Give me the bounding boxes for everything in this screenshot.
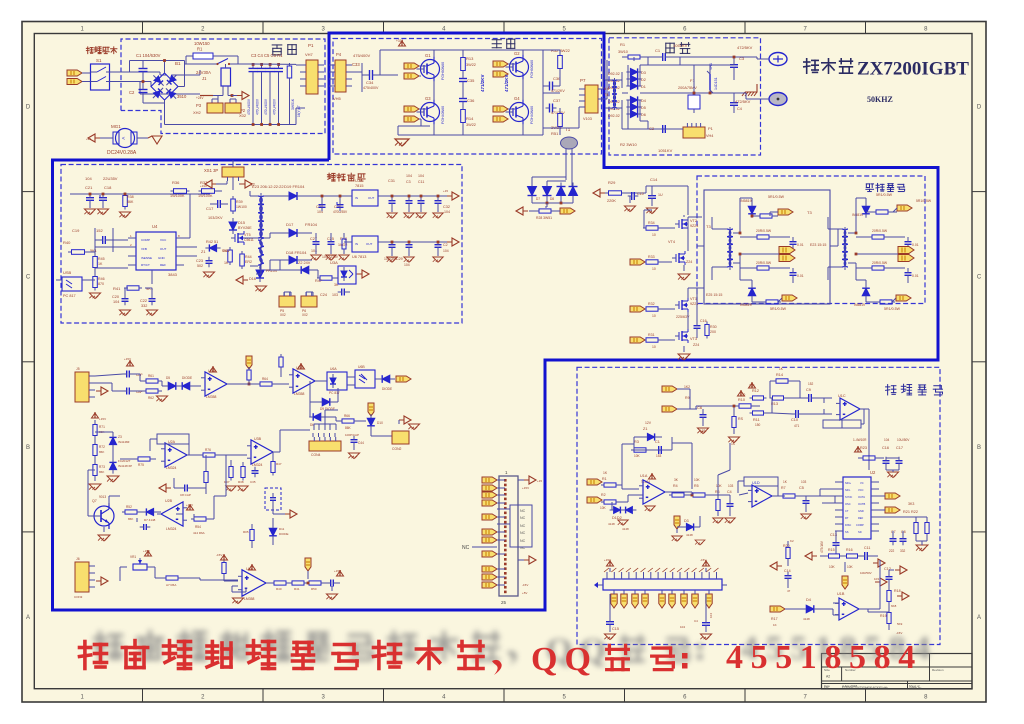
gnd left col [89,471,119,490]
svg-text:G3: G3 [425,96,431,101]
terminal plus [763,53,787,66]
svg-text:C17: C17 [896,446,903,450]
wire switch to C1 [110,61,152,87]
resistor R40b [266,581,289,591]
diode pair row1 [156,376,196,402]
label 电源开关 [86,47,117,54]
connector P7 [579,78,598,121]
gnd 上板 [395,139,409,146]
resistor R19 [868,609,903,635]
wire CON4 up [314,410,338,430]
svg-text:1K: 1K [224,261,229,265]
svg-text:LM358: LM358 [244,597,254,601]
wire U4 area [88,194,197,296]
svg-text:C1 104/630V: C1 104/630V [136,53,161,58]
svg-text:RT/CT: RT/CT [141,263,150,267]
bridge rectifier B1 [151,61,187,125]
svg-text:R15: R15 [828,548,835,552]
svg-text:RS: RS [738,417,744,421]
cap C14x [646,177,663,214]
svg-text:Z2 24V: Z2 24V [298,261,311,265]
svg-text:VT2: VT2 [690,219,697,223]
cap C row3 [159,478,191,497]
cap 0.01 b [790,268,804,283]
svg-text:D17: D17 [286,222,294,227]
terminal minus [763,93,787,106]
wire U1C out [868,409,870,470]
svg-text:Q7: Q7 [92,499,97,503]
svg-text:3W22: 3W22 [466,63,476,67]
pwr arrows ctrl mid [805,552,887,586]
wire 中板 top [640,56,769,88]
label group R23 C16 C17 [853,438,910,450]
transformer T1 core [561,127,578,180]
diode D22 IN5819 [852,198,870,233]
svg-text:86K: 86K [345,426,352,430]
resistor R5V [216,553,228,581]
svg-text:3K3: 3K3 [908,502,914,506]
svg-text:+: + [842,602,846,608]
svg-text:870: 870 [98,282,104,286]
svg-text:10K: 10K [600,506,607,510]
wire relay to P3 P2 [212,86,238,103]
svg-text:CT: CT [845,509,849,513]
svg-text:R38: R38 [127,195,134,199]
svg-text:LM358: LM358 [294,392,304,396]
svg-text:+: + [254,445,258,451]
svg-text:R72: R72 [99,445,105,449]
svg-text:472/5KV: 472/5KV [735,99,751,104]
svg-text:C21: C21 [85,185,93,190]
svg-text:XH2: XH2 [193,110,202,115]
gnd row2 [408,424,419,430]
svg-text:A: A [977,615,981,621]
cap C5c [799,480,835,519]
svg-text:5R1/0.5W: 5R1/0.5W [876,193,893,197]
cap C26 470U35V [333,196,348,214]
title ZX7200IGBT [857,59,969,80]
diode below U5B [310,381,338,411]
resistor R2B [193,448,222,457]
svg-text:R37: R37 [224,480,230,484]
IGBT G4 [493,93,534,135]
svg-text:D1D2: D1D2 [612,516,622,520]
svg-text:G1: G1 [425,53,431,58]
svg-text:D1: D1 [641,85,646,89]
resistor R2A [120,457,156,467]
cap C24 103 [320,289,350,298]
diode D19 FR104 [270,184,316,200]
svg-text:D92-02: D92-02 [608,72,620,76]
svg-text:103: 103 [332,293,338,297]
svg-text:471/2KV: 471/2KV [504,74,509,92]
svg-text:104: 104 [113,300,119,304]
resistor bank R vertical [287,63,295,125]
svg-text:104: 104 [444,210,450,214]
svg-text:C4: C4 [737,107,742,111]
resistor R43 [222,247,232,265]
svg-text:20R/0.5W: 20R/0.5W [756,229,772,233]
svg-text:ZX7200IGBT: ZX7200IGBT [857,59,969,80]
opamp U1D [738,477,785,507]
labels C16 225/63V [676,315,707,323]
board outline thick blue polygon [53,33,939,610]
svg-text:332: 332 [141,304,147,308]
resistor R33 [630,255,672,271]
svg-text:R14: R14 [466,116,474,121]
svg-text:IN: IN [355,242,358,246]
svg-text:Z1: Z1 [643,427,647,431]
svg-text:C37: C37 [553,98,561,103]
wire ctrl feedback [692,443,835,503]
dashed box 底板 (bottom board) [121,39,325,134]
cap 0.01 c [905,237,919,252]
svg-text:R36: R36 [172,180,180,185]
resistor R4A [122,505,140,521]
svg-text:VC: VC [860,481,864,485]
svg-text:-15V: -15V [522,583,528,587]
svg-text:C20: C20 [112,295,119,299]
svg-text:Z24: Z24 [686,260,692,264]
svg-text:+: + [176,507,180,513]
svg-text:104: 104 [443,249,449,253]
label 控制模块 [886,384,943,395]
svg-text:C8 CAP: C8 CAP [180,493,191,497]
resistor R34 [643,221,675,237]
svg-text:C11: C11 [418,180,424,184]
svg-text:OUT: OUT [366,242,373,246]
svg-text:DC24V0.28A: DC24V0.28A [107,150,137,156]
svg-text:1051KV: 1051KV [673,43,688,48]
wire top bus cap bank [250,64,305,65]
svg-text:10: 10 [652,314,656,318]
svg-text:R32: R32 [648,302,655,306]
opamp U1C [823,394,869,428]
svg-text:-: - [254,455,256,461]
cap C17 [206,200,228,211]
regulator U7 7815 [344,178,386,206]
label 辅助电源 [327,173,365,181]
svg-text:D11: D11 [279,527,285,531]
svg-text:C31: C31 [388,179,395,183]
diode D23 IN5819 [854,268,880,307]
resistor R4B [191,514,214,535]
svg-text:104: 104 [404,263,410,267]
svg-text:14D151: 14D151 [714,77,718,90]
transformer T4 [604,70,622,116]
wire VT2 VT4 [644,210,688,251]
cap C32 [435,196,451,214]
resistor RL3 [93,462,105,479]
svg-text:V103: V103 [583,117,592,121]
label 底板 [272,45,296,55]
svg-text:C32: C32 [443,205,450,209]
wire T4 输入 [604,60,628,129]
IGBT G1 [404,50,445,95]
svg-text:U2A: U2A [168,440,176,444]
title 佳士宝 [804,59,853,73]
svg-text:+5V: +5V [522,591,527,595]
label 上板 [492,39,515,48]
wire row2 to con [362,421,399,436]
svg-text:R20: R20 [783,544,790,548]
wire drv left junctions [739,215,754,256]
svg-text:U6 7813: U6 7813 [352,255,366,259]
pwr end row5 [326,569,343,600]
svg-text:+15: +15 [443,189,448,193]
DB25 NC labels [462,509,526,551]
pot VR1 [120,549,155,581]
resistor 20R a [740,229,790,239]
svg-text:D3: D3 [684,519,689,523]
power arrow out relay [237,92,249,100]
svg-text:3W10: 3W10 [618,50,628,54]
svg-text:NC: NC [520,539,526,543]
svg-text:9013: 9013 [99,495,106,499]
opamp U1B [833,592,868,620]
svg-text:C36: C36 [467,98,475,103]
cap C4m [730,96,742,113]
label 472/5KV top [737,45,753,50]
motor MG1 [86,124,148,148]
resistor R row2 [330,414,362,430]
diode D row2 [309,402,330,427]
header pwr arrows [604,558,710,572]
resistor R50b [304,581,328,591]
control header strip [594,568,727,590]
mosfet VT2 [675,217,698,231]
labels C25 R48 [322,237,347,259]
svg-text:X02: X02 [302,313,308,317]
svg-text:R45: R45 [98,257,105,261]
svg-text:G2: G2 [514,51,520,56]
svg-text:T4: T4 [604,93,608,97]
resistor R46 [89,274,104,299]
label E23 spec [252,184,284,189]
opamp U4A [190,564,270,604]
svg-text:SD: SD [858,530,862,534]
svg-text:475/400V: 475/400V [353,53,370,58]
svg-text:OUT: OUT [368,196,375,200]
cap C33 [352,62,362,92]
resistor R29 220K [593,180,646,203]
svg-text:1K2: 1K2 [684,385,690,389]
svg-text:C2: C2 [443,243,448,247]
title block text [824,668,944,690]
svg-text:104: 104 [680,625,685,629]
svg-text:R34: R34 [648,221,655,225]
svg-text:IN5819: IN5819 [852,213,863,217]
resistor R5R1 bot [763,298,787,311]
cap C10c [772,410,824,428]
wire left col [92,412,114,481]
svg-text:R9: R9 [685,396,690,400]
svg-text:R61: R61 [148,374,154,378]
label 475/16V [820,540,824,553]
svg-text:R44: R44 [245,255,252,259]
connector P4 VH5 [329,52,352,101]
svg-text:C18: C18 [104,185,112,190]
wire 中板 bottom [628,121,680,129]
svg-text:R76: R76 [205,448,211,452]
svg-text:470U/400V: 470U/400V [264,98,268,115]
svg-text:-: - [842,612,844,618]
cap C1m [655,43,688,61]
svg-text:IN4148Z: IN4148Z [118,440,130,444]
wire Z1 box [622,437,692,489]
transformer T3 left [706,217,740,297]
cap C11c [858,546,878,575]
cap C22 [140,295,158,316]
cap C2m [649,125,672,133]
svg-text:+310: +310 [200,184,207,188]
label 475/400V [353,53,370,58]
svg-text:P1: P1 [708,126,714,131]
diode D4c [770,598,833,627]
svg-text:R47: R47 [276,462,282,466]
resistor R22 [879,517,929,551]
cap C15c [604,594,619,640]
svg-text:QQ: QQ [531,641,598,678]
svg-text:Z24: Z24 [693,343,699,347]
label 5R1 top right [916,199,932,203]
cap row2 [345,433,364,459]
svg-text:D5: D5 [166,376,170,380]
svg-text:NC: NC [520,509,526,513]
resistor R39 [208,196,247,220]
svg-text:REF: REF [858,516,864,520]
svg-text:3W22: 3W22 [466,123,476,127]
svg-text:R17: R17 [771,617,778,621]
svg-text:G4: G4 [514,96,520,101]
pin drv top [770,209,793,216]
svg-text:OUTA: OUTA [858,495,865,499]
svg-text:R64: R64 [262,377,268,381]
svg-text:IN: IN [355,196,358,200]
connector CON2 [392,431,409,451]
svg-text:VR1: VR1 [130,555,136,559]
svg-text:+24V: +24V [196,96,204,100]
svg-text:R05: R05 [243,530,249,534]
svg-text:10: 10 [652,345,656,349]
svg-text:+15: +15 [537,479,542,483]
svg-text:BYV26E: BYV26E [238,226,252,230]
svg-text:R14: R14 [776,373,783,377]
svg-text:R21 R22: R21 R22 [903,510,918,514]
svg-text:R40: R40 [276,587,282,591]
svg-text:C14: C14 [784,569,791,573]
diode D row1 end [378,375,395,391]
resistor R23 [855,446,885,460]
power arrow +24V [196,96,213,101]
DB25 pins left [482,477,505,588]
svg-text:D5: D5 [641,106,646,110]
svg-text:R4: R4 [673,484,678,488]
svg-text:16(Y)&T: 16(Y)&T [297,105,301,117]
resistor R3c [631,437,662,458]
svg-text:C4: C4 [694,619,698,623]
svg-text:3843: 3843 [168,272,178,277]
wire driver link [697,229,842,246]
svg-text:24V30A: 24V30A [196,70,211,75]
resistor R5A [155,567,190,587]
diode D17 FR104 [270,222,318,238]
bus 上板 bottom [398,126,543,135]
svg-text:472/5KV: 472/5KV [737,45,753,50]
cap C34 [362,70,380,90]
svg-text:R73: R73 [99,465,105,469]
svg-text:IN4148 6P: IN4148 6P [118,464,132,468]
transistor Q7 [88,470,120,541]
resistor R15 [820,548,843,569]
svg-text:100P/CAP: 100P/CAP [345,433,359,437]
opamp U5A [196,366,238,399]
svg-text:86K: 86K [99,470,104,474]
diode D20 IN5819 [740,198,756,218]
labels R6 C4 [715,484,734,494]
pin drv right mid [855,232,914,262]
resistor R18 [887,588,909,613]
cap C50 [307,580,340,587]
svg-text:R2 3W10: R2 3W10 [620,142,637,147]
svg-text:1-4W10R: 1-4W10R [853,438,867,442]
cap C30 [384,241,403,261]
svg-text:R1: R1 [602,477,607,481]
svg-text:1U: 1U [658,193,663,197]
svg-text:File: File [824,686,829,690]
zener Z1aux 20V [201,240,230,254]
svg-text:R10: R10 [738,398,745,402]
svg-text:R41: R41 [294,587,300,591]
svg-text:R66: R66 [344,414,350,418]
red advert text 河南焊机销售与技术群 QQ群号 45518584 [80,639,923,678]
svg-text:1051KV: 1051KV [658,148,673,153]
resistor R40 [63,240,97,254]
svg-text:F:\2000\d21\2X7200\4000-6\2X20: F:\2000\d21\2X7200\4000-6\2X200.ddb [842,686,888,690]
opamp U2B left [137,499,187,531]
svg-text:C5: C5 [799,486,804,490]
connector CN2 aux [301,292,317,317]
svg-text:R31: R31 [648,333,655,337]
svg-text:OUTB: OUTB [858,502,865,506]
svg-text:D7 4148: D7 4148 [144,518,156,522]
svg-text:FGH60N60: FGH60N60 [441,62,445,80]
cap C1 X2 [136,53,161,82]
diode LED row2 [367,414,383,432]
wire aux top bus [70,193,210,196]
svg-text:200: 200 [710,330,716,334]
svg-text:18U/25V: 18U/25V [327,174,342,178]
varistor VR1 [707,63,718,93]
svg-text:SS: SS [845,530,849,534]
svg-text:4148: 4148 [608,522,615,526]
svg-text:IN5819: IN5819 [854,303,865,307]
svg-text:U6B: U6B [358,365,365,369]
svg-text:10R/50V: 10R/50V [860,571,872,575]
svg-text:D4: D4 [806,598,811,602]
svg-text:D15: D15 [238,221,245,225]
svg-text:-: - [755,499,757,505]
svg-text:R54: R54 [195,525,201,529]
cap C36 right [543,76,565,93]
resistor R14 3W22 [461,107,476,136]
svg-text:FGH40N60: FGH40N60 [530,106,534,124]
svg-text:+: + [168,448,172,454]
svg-text:C2: C2 [129,90,135,95]
svg-text:222: 222 [889,549,895,553]
svg-text:3W51K: 3W51K [291,98,295,110]
opamp U2A [150,434,193,470]
